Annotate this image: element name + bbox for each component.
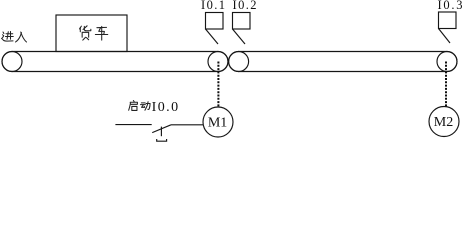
svg-text:M2: M2 [434,115,453,130]
svg-text:M1: M1 [208,115,227,130]
